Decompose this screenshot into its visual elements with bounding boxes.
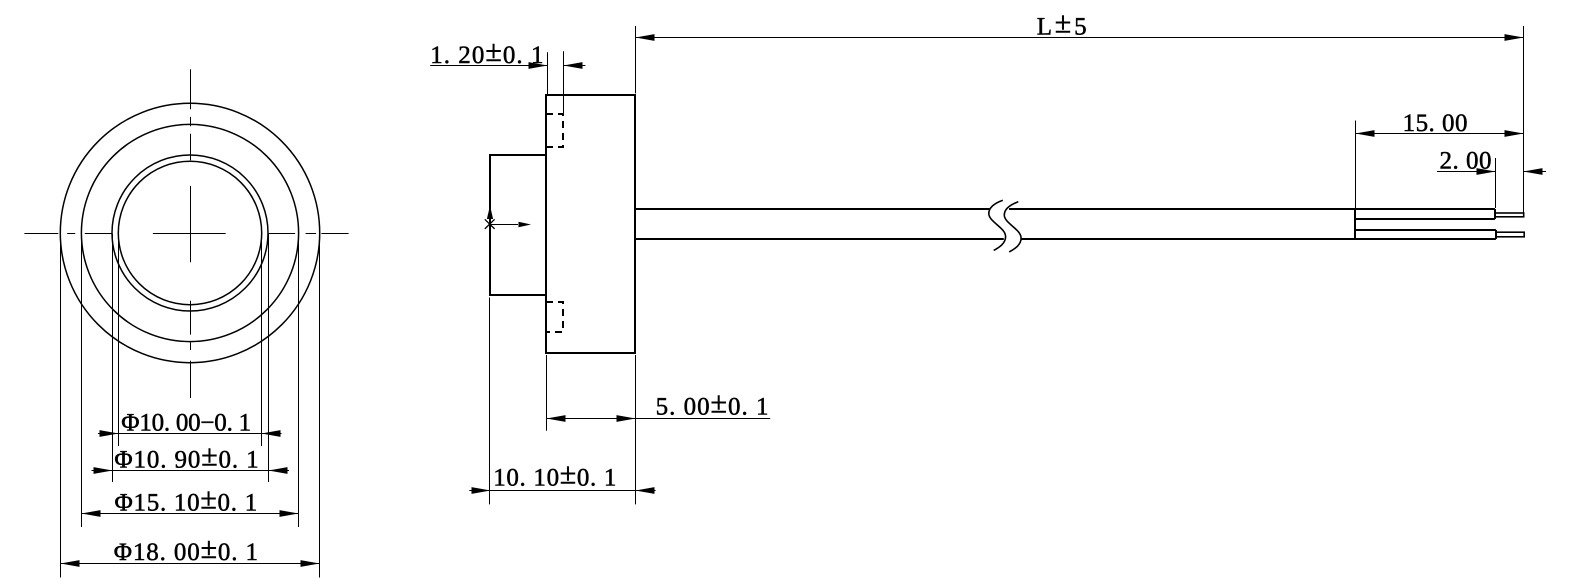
vertical centerline — [190, 69, 192, 398]
svg-text:Φ18. 00±0. 1: Φ18. 00±0. 1 — [114, 532, 258, 566]
circle Φ10.00 inner — [118, 161, 261, 304]
cable break squiggle left — [989, 200, 1006, 250]
wire bottom insulation end cap — [1495, 230, 1497, 239]
hidden slot bottom (dashed) — [546, 302, 563, 332]
svg-text:10. 10±0. 1: 10. 10±0. 1 — [493, 458, 616, 492]
circle Φ18.00 outer — [60, 103, 319, 362]
datum marker asterisk — [485, 219, 495, 229]
dimension 2.00 — [1437, 147, 1546, 208]
dimension L±5 — [636, 6, 1524, 213]
dimension 1.20±0.1 — [430, 35, 585, 113]
cable top edge — [635, 208, 1495, 210]
sensor nose rectangle — [490, 155, 546, 295]
svg-text:2. 00: 2. 00 — [1440, 147, 1492, 174]
svg-text:15. 00: 15. 00 — [1403, 110, 1468, 137]
wire top insulation lower edge — [1355, 218, 1495, 220]
wire bottom bare conductor — [1496, 232, 1524, 237]
svg-text:5. 00±0. 1: 5. 00±0. 1 — [656, 386, 769, 420]
wire top bare conductor — [1495, 213, 1524, 217]
dimension Φ10.90±0.1 — [92, 440, 290, 474]
circle Φ10.90 — [112, 155, 268, 311]
flange rectangle — [546, 95, 635, 353]
cable break squiggle right — [1004, 202, 1021, 252]
svg-text:Φ15. 10±0. 1: Φ15. 10±0. 1 — [115, 482, 258, 516]
horizontal centerline — [24, 233, 348, 235]
datum arrow up — [487, 206, 493, 220]
cable bottom edge — [635, 238, 1496, 240]
circle Φ15.10 — [81, 124, 298, 341]
extension line Φ10.9 left — [112, 234, 114, 482]
datum arrow right — [490, 222, 531, 227]
extension line Φ10.0 right — [261, 234, 263, 446]
svg-text:1. 20±0. 1: 1. 20±0. 1 — [430, 35, 543, 69]
hidden slot top (dashed) — [546, 114, 563, 147]
extension line Φ15.1 right — [298, 234, 300, 527]
wire bottom insulation upper edge — [1355, 229, 1496, 231]
extension line Φ18 left — [60, 234, 62, 578]
extension line Φ10.9 right — [268, 234, 270, 482]
dimension 10.10±0.1 — [469, 298, 655, 505]
wire top insulation end cap — [1494, 209, 1496, 219]
dimension Φ15.10±0.1 — [82, 482, 299, 517]
dimension Φ10.00-0.1 — [98, 410, 282, 437]
extension line Φ10.0 left — [118, 234, 120, 446]
svg-text:L±5: L±5 — [1037, 6, 1087, 40]
svg-text:Φ10. 00−0. 1: Φ10. 00−0. 1 — [121, 410, 251, 437]
extension line Φ15.1 left — [81, 234, 83, 527]
svg-text:Φ10. 90±0. 1: Φ10. 90±0. 1 — [114, 440, 258, 474]
extension line Φ18 right — [319, 234, 321, 578]
dimension 5.00±0.1 — [547, 355, 771, 504]
cable jacket end line — [1354, 209, 1356, 239]
dimension Φ18.00±0.1 — [61, 532, 320, 567]
dimension 15.00 — [1356, 110, 1524, 209]
